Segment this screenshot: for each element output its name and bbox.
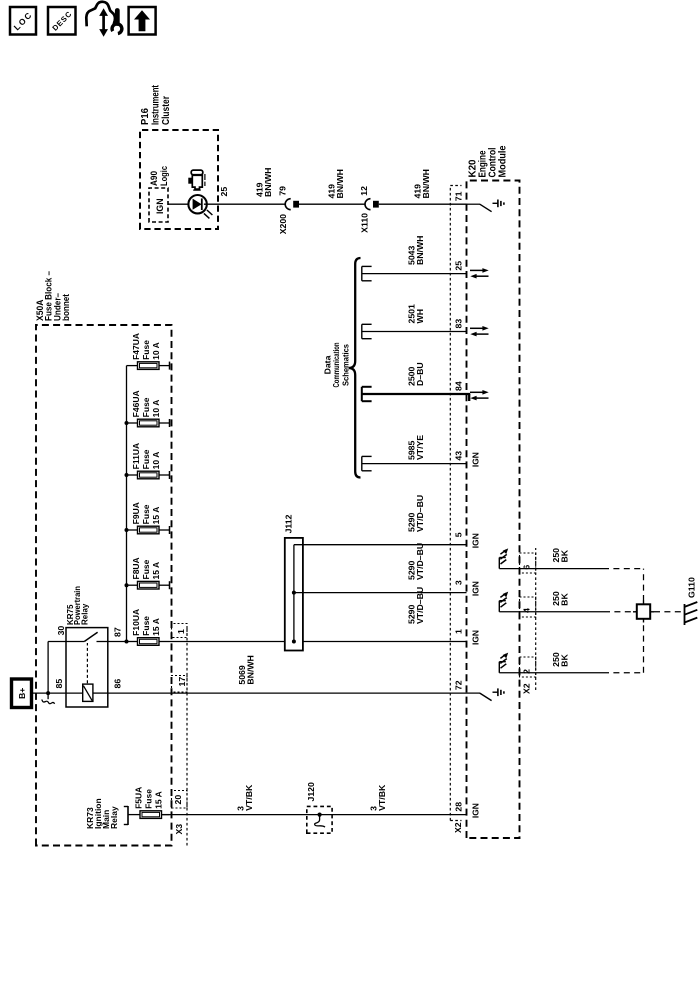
label X200	[278, 214, 288, 234]
svg-text:X200: X200	[278, 214, 288, 234]
relay KR75 box	[66, 628, 108, 707]
pin box 2	[520, 657, 536, 677]
svg-text:F46UA: F46UA	[131, 390, 141, 417]
serial data arrows pin 84	[470, 390, 489, 400]
svg-text:28: 28	[454, 802, 464, 812]
internal chassis ground pin 4	[499, 592, 508, 612]
pin 1 K20	[454, 629, 464, 634]
pin 25 K20	[454, 261, 464, 271]
connector X2 line top	[450, 186, 461, 821]
svg-text:BN/WH: BN/WH	[415, 236, 425, 265]
svg-text:VT/D–BU: VT/D–BU	[415, 495, 425, 532]
label F10UA Fuse 15 A	[131, 609, 161, 636]
svg-text:86: 86	[113, 679, 123, 689]
label 5043 BN/WH	[407, 236, 425, 265]
wire F10UA to J112	[170, 641, 285, 643]
label X2 bottom	[522, 683, 532, 694]
pin box 4	[520, 597, 536, 617]
wire 250 BK pin 2	[499, 672, 643, 674]
svg-text:IGN: IGN	[155, 199, 165, 215]
pin 6 K20 bottom	[522, 565, 532, 570]
label 3 VT/BK upper	[236, 784, 254, 811]
pin box 20	[172, 791, 188, 809]
svg-text:F10UA: F10UA	[131, 609, 141, 636]
svg-text:Module: Module	[498, 145, 509, 177]
splice tilde	[42, 693, 55, 704]
svg-text:X2: X2	[453, 822, 463, 833]
button LOC	[10, 7, 36, 35]
pin 5 K20	[454, 532, 464, 537]
label IGN pin 5	[471, 533, 481, 548]
svg-text:83: 83	[454, 319, 464, 329]
svg-text:B+: B+	[17, 688, 27, 699]
label K20 Engine Control Module	[468, 145, 509, 177]
fuse bus	[126, 366, 128, 642]
pin 25 cluster	[219, 187, 229, 197]
svg-text:VT/BK: VT/BK	[377, 784, 387, 811]
pin 17 fuse block	[177, 677, 187, 687]
fuse F11UA	[127, 471, 170, 479]
svg-text:J120: J120	[306, 782, 316, 801]
svg-text:X3: X3	[174, 824, 184, 835]
svg-text:VT/BK: VT/BK	[244, 784, 254, 811]
internal chassis ground pin 6	[499, 548, 508, 568]
svg-text:VT/YE: VT/YE	[415, 435, 425, 460]
label F9UA Fuse 15 A	[131, 502, 161, 524]
brace Data Communication Schematics	[349, 258, 361, 478]
svg-text:Cluster: Cluster	[161, 96, 172, 125]
splice J120	[307, 806, 332, 833]
svg-text:VT/D–BU: VT/D–BU	[415, 587, 425, 624]
relay coil	[66, 684, 108, 701]
logic module A90 box	[149, 188, 168, 222]
label 5985 VT/YE	[407, 435, 425, 460]
svg-text:Fuse: Fuse	[144, 789, 154, 809]
fuse F8UA	[127, 581, 170, 589]
pin 3 K20	[454, 580, 464, 585]
svg-text:Fuse: Fuse	[141, 504, 151, 524]
ground bus dashed	[643, 569, 645, 673]
relay pin 86	[113, 679, 123, 689]
relay switch	[66, 632, 108, 641]
svg-text:43: 43	[454, 451, 464, 461]
label F8UA Fuse 15 A	[131, 557, 161, 579]
battery terminal B+	[12, 679, 32, 708]
svg-text:5: 5	[454, 532, 464, 537]
svg-text:79: 79	[277, 186, 287, 196]
internal ground pin 71	[467, 200, 504, 212]
svg-text:Communication: Communication	[331, 343, 341, 388]
svg-text:P16: P16	[140, 108, 151, 125]
svg-text:J112: J112	[284, 514, 294, 533]
wire 5290 VT/D-BU to pin 3	[294, 592, 467, 594]
label F47UA Fuse 10 A	[131, 333, 161, 360]
svg-text:Relay: Relay	[109, 806, 119, 829]
label X50A Fuse Block - Underbonnet	[35, 271, 72, 321]
svg-text:1: 1	[176, 629, 186, 634]
label F5UA Fuse 15 A	[134, 787, 164, 809]
svg-text:bonnet: bonnet	[61, 293, 72, 321]
wire 3 VT/BK KR73 to J120	[162, 814, 320, 816]
svg-text:Relay: Relay	[80, 603, 89, 625]
svg-text:IGN: IGN	[471, 630, 481, 645]
fuse F5UA	[140, 811, 170, 819]
indicator lamp icon	[188, 170, 205, 190]
label IGN pin 3	[471, 581, 481, 596]
svg-text:IGN: IGN	[471, 581, 481, 596]
pin 1 fuse block	[176, 629, 186, 634]
label X3	[174, 824, 184, 835]
pin 20 fuse block	[173, 795, 183, 805]
label X110	[360, 213, 370, 233]
svg-text:25: 25	[454, 261, 464, 271]
wire 3 VT/BK J120 to K20 pin 28	[320, 814, 467, 816]
svg-text:VT/D–BU: VT/D–BU	[415, 543, 425, 580]
label 250 BK pin 4	[551, 591, 569, 606]
wire 5043 BN/WH	[362, 266, 467, 280]
svg-text:Fuse: Fuse	[141, 340, 151, 360]
pin 12 X110	[359, 186, 369, 196]
wire LED to X200	[204, 203, 285, 205]
svg-text:Fuse: Fuse	[141, 559, 151, 579]
label 2501 WH	[407, 304, 425, 323]
label 419 BN/WH segment 1	[255, 168, 273, 197]
pin box 17	[172, 676, 188, 693]
pin 79 X200	[277, 186, 287, 196]
wire 5290 VT/D-BU to pin 1	[303, 641, 467, 643]
label KR73 Ignition Main Relay	[85, 798, 119, 829]
junction J112 pin3 wire	[292, 591, 296, 595]
svg-text:IGN: IGN	[471, 452, 481, 467]
svg-text:G110: G110	[687, 577, 697, 598]
svg-text:D–BU: D–BU	[415, 362, 425, 386]
junction J112 pin1 wire	[292, 640, 296, 644]
svg-text:84: 84	[454, 381, 464, 391]
pin 2 K20 bottom	[522, 669, 532, 674]
fuse F9UA	[127, 526, 170, 534]
label Data Communication Schematics	[322, 343, 350, 388]
wire 5069 BN/WH relay to K20 pin 72	[108, 692, 467, 694]
pin 28 K20	[454, 802, 464, 812]
label X2 top	[453, 822, 463, 833]
wire X200 to X110	[299, 203, 365, 205]
svg-text:BK: BK	[559, 549, 569, 562]
fuse F47UA	[127, 362, 170, 370]
indicator LED	[188, 195, 212, 218]
connector X2 line bottom	[535, 548, 537, 690]
svg-text:15 A: 15 A	[151, 562, 161, 580]
fuse F46UA	[127, 419, 170, 427]
label 5290 VT/D-BU pin1	[407, 587, 425, 624]
junction F11UA	[125, 473, 129, 477]
wire branch to relay pin 30	[48, 642, 66, 694]
wire B+ to relay coil	[31, 692, 67, 694]
label F46UA Fuse 10 A	[131, 390, 161, 417]
serial data arrows pin 83	[470, 326, 489, 336]
svg-text:BK: BK	[559, 593, 569, 606]
svg-text:BK: BK	[559, 654, 569, 667]
pin 84 K20	[454, 381, 464, 391]
svg-text:25: 25	[219, 187, 229, 197]
junction F46UA	[125, 421, 129, 425]
pin 72 K20	[454, 680, 464, 690]
svg-text:10 A: 10 A	[151, 400, 161, 418]
svg-text:1: 1	[454, 629, 464, 634]
label IGN pin 43	[471, 452, 481, 467]
relay pin 85	[54, 679, 64, 689]
module K20 box	[467, 181, 520, 839]
label J120	[306, 782, 316, 801]
svg-text:30: 30	[56, 626, 66, 636]
svg-text:87: 87	[113, 627, 123, 637]
label 419 BN/WH segment 3	[413, 169, 431, 198]
junction F9UA	[125, 528, 129, 532]
svg-text:F8UA: F8UA	[131, 557, 141, 579]
label 2500 D-BU	[407, 362, 425, 386]
wire 250 BK pin 4	[499, 611, 637, 613]
internal ground pin 72	[467, 688, 504, 700]
label 3 VT/BK lower	[369, 784, 387, 811]
svg-text:IGN: IGN	[471, 803, 481, 818]
svg-text:F9UA: F9UA	[131, 502, 141, 524]
splice pack J112	[285, 538, 303, 651]
relay actuator link	[86, 643, 88, 683]
label J112	[284, 514, 294, 533]
wire X110 to K20 pin 71	[379, 203, 467, 205]
svg-text:15 A: 15 A	[151, 618, 161, 636]
svg-text:BN/WH: BN/WH	[421, 169, 431, 198]
svg-text:BN/WH: BN/WH	[335, 169, 345, 198]
svg-text:85: 85	[54, 679, 64, 689]
svg-text:15 A: 15 A	[151, 507, 161, 525]
pin 4 K20 bottom	[522, 608, 532, 613]
wire 250 BK pin 6	[499, 568, 643, 570]
terminal KR73	[124, 806, 140, 825]
wire relay 87 to fuse bus	[108, 641, 127, 643]
label KR75 Powertrain Relay	[66, 586, 89, 625]
pin box 6	[520, 553, 536, 573]
svg-text:IGN: IGN	[471, 533, 481, 548]
connector X110	[365, 199, 379, 210]
svg-text:BN/WH: BN/WH	[263, 168, 273, 197]
svg-text:X2: X2	[522, 683, 532, 694]
junction B+ branch	[46, 691, 50, 695]
button DESC	[48, 7, 76, 35]
label 250 BK pin 6	[551, 548, 569, 563]
pin 83 K20	[454, 319, 464, 329]
svg-text:Fuse: Fuse	[141, 616, 151, 636]
fuse F10UA	[127, 638, 170, 646]
ground stud bolt	[633, 601, 654, 623]
wire stud to G110	[654, 611, 683, 613]
svg-text:A90: A90	[149, 171, 159, 186]
button up arrow	[129, 7, 156, 35]
label F11UA Fuse 10 A	[131, 443, 161, 469]
label IGN pin 28	[471, 803, 481, 818]
wire 5290 VT/D-BU to pin 5	[294, 544, 467, 546]
svg-text:10 A: 10 A	[151, 452, 161, 470]
svg-text:F11UA: F11UA	[131, 443, 141, 469]
label 250 BK pin 2	[551, 652, 569, 667]
icon vehicle service	[86, 2, 122, 37]
connector X3 line	[186, 627, 188, 846]
svg-text:Fuse: Fuse	[141, 397, 151, 417]
fuse block X50A	[36, 325, 172, 846]
svg-text:15 A: 15 A	[154, 791, 164, 809]
svg-text:X110: X110	[360, 213, 370, 233]
pin 43 K20	[454, 451, 464, 461]
svg-text:WH: WH	[415, 309, 425, 323]
wire 5985 VT/YE	[362, 456, 467, 470]
junction F8UA	[125, 583, 129, 587]
svg-text:Instrument: Instrument	[151, 84, 162, 125]
pin 71 K20	[454, 191, 464, 201]
svg-text:20: 20	[173, 795, 183, 805]
serial data arrows pin 25	[470, 268, 489, 278]
svg-text:Schematics: Schematics	[340, 344, 350, 386]
svg-text:Logic: Logic	[159, 166, 169, 186]
svg-text:72: 72	[454, 680, 464, 690]
internal chassis ground pin 2	[499, 653, 508, 673]
svg-text:17: 17	[177, 677, 187, 687]
cluster P16 box	[140, 130, 218, 229]
relay pin 30	[56, 626, 66, 636]
wire 2501 WH	[362, 324, 467, 338]
ground G110	[685, 602, 698, 625]
wire A90 to LED	[168, 203, 188, 205]
label IGN pin 1	[471, 630, 481, 645]
connector X200	[285, 199, 299, 210]
svg-text:12: 12	[359, 186, 369, 196]
relay pin 87	[113, 627, 123, 637]
junction F10UA	[125, 640, 129, 644]
label IGN A90	[155, 199, 165, 215]
label 5069 BN/WH	[237, 655, 255, 684]
wire 2500 D-BU bold	[362, 387, 470, 401]
svg-text:3: 3	[454, 580, 464, 585]
label 5290 VT/D-BU pin5	[407, 495, 425, 532]
label P16 Instrument Cluster	[140, 84, 172, 125]
pin box 1	[172, 624, 188, 638]
label 419 BN/WH segment 2	[327, 169, 345, 198]
label A90 Logic	[149, 166, 169, 186]
svg-text:Fuse: Fuse	[141, 449, 151, 469]
svg-text:BN/WH: BN/WH	[245, 655, 255, 684]
svg-text:F47UA: F47UA	[131, 333, 141, 360]
svg-text:F5UA: F5UA	[134, 787, 144, 809]
label G110	[687, 577, 697, 598]
svg-text:71: 71	[454, 191, 464, 201]
label 5290 VT/D-BU pin3	[407, 543, 425, 580]
svg-text:10 A: 10 A	[151, 342, 161, 360]
